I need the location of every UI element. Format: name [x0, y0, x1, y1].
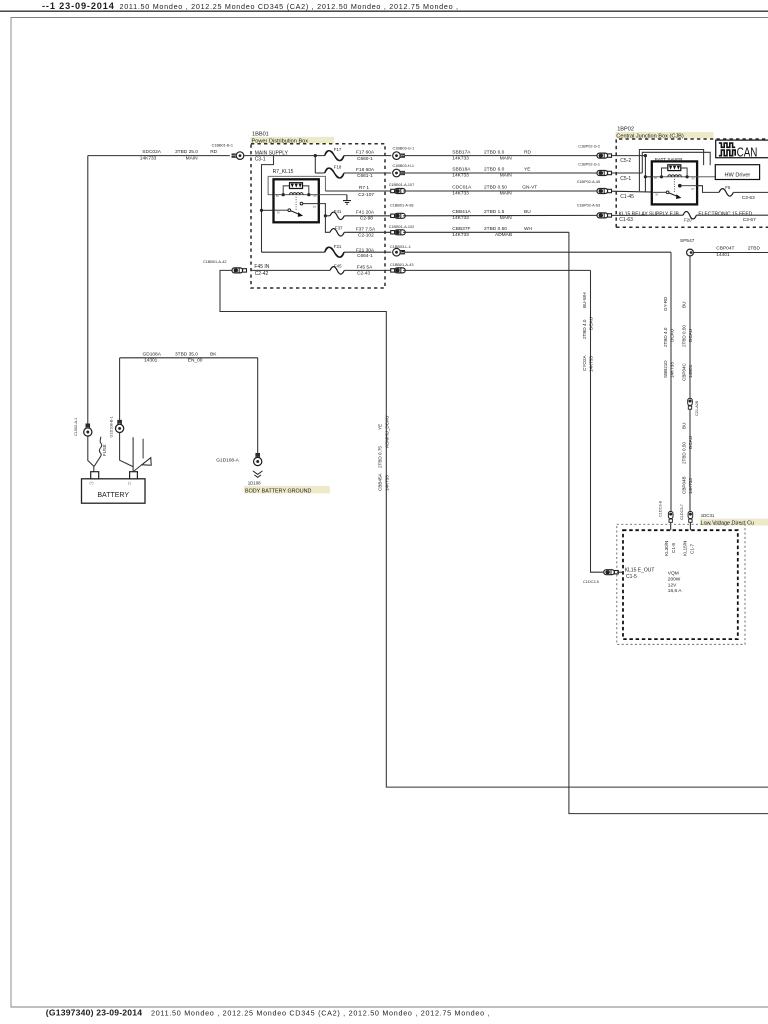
svg-text:2TBD 0.50: 2TBD 0.50 — [682, 325, 687, 347]
svg-text:85: 85 — [313, 194, 317, 198]
svg-text:C1BP02-G-1: C1BP02-G-1 — [578, 162, 600, 166]
svg-text:C3-1: C3-1 — [255, 157, 266, 163]
svg-text:MAIN: MAIN — [500, 215, 513, 221]
svg-text:C660-1: C660-1 — [357, 156, 373, 162]
svg-text:BU: BU — [682, 423, 687, 429]
svg-text:F41: F41 — [334, 209, 342, 214]
svg-text:HW Driver: HW Driver — [725, 173, 751, 179]
svg-text:C1BB01-B-1: C1BB01-B-1 — [212, 143, 233, 147]
svg-text:14B01: 14B01 — [688, 364, 693, 378]
svg-text:RD: RD — [210, 149, 217, 155]
svg-text:CBB37F: CBB37F — [452, 226, 470, 232]
svg-text:14K733: 14K733 — [670, 362, 675, 378]
svg-text:86: 86 — [276, 194, 280, 198]
svg-text:SDC02A: SDC02A — [142, 149, 161, 155]
svg-text:MAIN SUPPLY: MAIN SUPPLY — [255, 150, 289, 156]
svg-text:CBP04C: CBP04C — [682, 362, 687, 381]
svg-text:14K733: 14K733 — [688, 478, 693, 494]
svg-text:KL30/N: KL30/N — [664, 541, 669, 556]
svg-text:F45 5A: F45 5A — [357, 264, 373, 270]
svg-text:14K733: 14K733 — [452, 173, 469, 179]
svg-text:F18: F18 — [334, 165, 342, 170]
svg-text:C1DC3-8: C1DC3-8 — [659, 501, 663, 517]
svg-text:C3-67: C3-67 — [743, 217, 756, 223]
svg-text:87: 87 — [691, 187, 695, 191]
svg-text:2TBD 6.0: 2TBD 6.0 — [484, 149, 505, 155]
svg-text:C664-1: C664-1 — [357, 253, 373, 259]
svg-text:MAIN: MAIN — [500, 173, 513, 179]
svg-text:F37 7.5A: F37 7.5A — [356, 227, 376, 233]
svg-text:CYO2A: CYO2A — [582, 354, 587, 371]
svg-text:30: 30 — [277, 211, 281, 215]
svg-text:14301: 14301 — [144, 357, 158, 363]
svg-text:MAIN: MAIN — [500, 155, 513, 161]
svg-text:1BB01: 1BB01 — [252, 132, 269, 138]
svg-text:GD108A: GD108A — [143, 351, 162, 357]
svg-text:C661-1: C661-1 — [357, 173, 373, 179]
svg-text:C1BB03-L-1: C1BB03-L-1 — [390, 245, 411, 249]
svg-text:C2-42: C2-42 — [255, 271, 269, 277]
svg-text:(+): (+) — [90, 481, 94, 485]
svg-text:C1-63: C1-63 — [619, 217, 633, 223]
svg-text:87: 87 — [313, 205, 317, 209]
svg-text:1BP02: 1BP02 — [617, 127, 634, 133]
svg-text:EN_00: EN_00 — [188, 357, 203, 363]
svg-text:CBB41A: CBB41A — [452, 209, 471, 215]
svg-text:C1BB01-A-107: C1BB01-A-107 — [389, 183, 415, 187]
svg-text:BK: BK — [210, 351, 217, 357]
svg-text:ADMAB: ADMAB — [495, 232, 512, 238]
svg-text:F17: F17 — [334, 147, 342, 152]
svg-text:F21: F21 — [334, 244, 342, 249]
svg-text:BU-WH: BU-WH — [582, 292, 587, 308]
svg-text:C1BB01-A-98: C1BB01-A-98 — [390, 204, 413, 208]
svg-text:C1BB03-H-1: C1BB03-H-1 — [393, 164, 415, 168]
svg-text:14K733: 14K733 — [452, 232, 469, 238]
svg-text:C1BP02-A-45: C1BP02-A-45 — [577, 180, 600, 184]
svg-text:2TBD 0.50: 2TBD 0.50 — [484, 226, 507, 232]
svg-text:BU: BU — [524, 209, 531, 215]
svg-text:14401: 14401 — [716, 252, 730, 258]
svg-text:F37: F37 — [335, 225, 343, 230]
svg-text:C21-A28: C21-A28 — [695, 401, 699, 416]
svg-text:C3-63: C3-63 — [742, 195, 755, 201]
svg-text:86: 86 — [654, 176, 658, 180]
svg-text:C1-8: C1-8 — [671, 543, 676, 553]
svg-text:RD: RD — [524, 149, 531, 155]
svg-text:BODY BATTERY GROUND: BODY BATTERY GROUND — [245, 488, 312, 494]
svg-text:C1DC3-5: C1DC3-5 — [583, 580, 599, 584]
svg-text:C1DC3-7: C1DC3-7 — [680, 504, 684, 520]
svg-text:2011.50 Mondeo , 2012.25 Monde: 2011.50 Mondeo , 2012.25 Mondeo CD345 (C… — [151, 1009, 490, 1018]
svg-text:KL15 E_OUT: KL15 E_OUT — [625, 568, 655, 574]
svg-text:F18 60A: F18 60A — [356, 167, 375, 173]
svg-text:GY-RD: GY-RD — [663, 296, 668, 311]
svg-text:DCAU: DCAU — [670, 329, 675, 342]
svg-text:F41 20A: F41 20A — [356, 210, 375, 216]
svg-text:F5: F5 — [725, 185, 731, 190]
svg-text:85: 85 — [692, 176, 696, 180]
svg-text:C1BB03-G-1: C1BB03-G-1 — [393, 147, 415, 151]
svg-text:SBB17A: SBB17A — [452, 149, 471, 155]
svg-text:14K733: 14K733 — [384, 475, 389, 491]
svg-text:30: 30 — [655, 193, 659, 197]
svg-text:WH: WH — [524, 226, 533, 232]
svg-text:2TBD 0.75: 2TBD 0.75 — [378, 446, 383, 468]
svg-text:F45: F45 — [334, 263, 342, 268]
svg-text:C1-5: C1-5 — [626, 574, 637, 580]
svg-text:R7_KL15: R7_KL15 — [273, 169, 294, 175]
svg-text:C1002-A-1: C1002-A-1 — [74, 418, 78, 436]
svg-text:BATTERY: BATTERY — [97, 492, 129, 499]
svg-text:C5-1: C5-1 — [620, 176, 631, 182]
svg-text:FUSE: FUSE — [102, 444, 107, 456]
svg-text:C1BP02-A-63: C1BP02-A-63 — [577, 204, 600, 208]
svg-text:MAIN: MAIN — [186, 155, 199, 161]
svg-text:2011.50 Mondeo , 2012.25 Monde: 2011.50 Mondeo , 2012.25 Mondeo CD345 (C… — [120, 2, 459, 11]
svg-text:CDC01A: CDC01A — [452, 185, 472, 191]
svg-text:YE: YE — [524, 167, 530, 173]
svg-text:14K733: 14K733 — [452, 215, 469, 221]
svg-text:(G1397340) 23-09-2014: (G1397340) 23-09-2014 — [46, 1008, 142, 1018]
svg-text:GN-VT: GN-VT — [522, 185, 537, 191]
svg-text:Low Voltage Direct Cu: Low Voltage Direct Cu — [701, 520, 754, 526]
svg-text:C5-2: C5-2 — [620, 158, 631, 164]
svg-text:(-): (-) — [128, 481, 131, 485]
svg-text:14K733: 14K733 — [452, 155, 469, 161]
svg-text:1D108: 1D108 — [248, 481, 261, 486]
svg-text:C2-102: C2-102 — [358, 233, 374, 239]
svg-text:CBB45A: CBB45A — [378, 472, 383, 491]
svg-text:SBB18A: SBB18A — [452, 167, 471, 173]
svg-text:3TBD 35.0: 3TBD 35.0 — [175, 351, 198, 357]
svg-text:16,6 A: 16,6 A — [668, 588, 682, 594]
svg-text:C1-45: C1-45 — [620, 194, 634, 200]
svg-text:12V: 12V — [668, 582, 677, 588]
svg-text:BU: BU — [682, 302, 687, 308]
svg-text:CBP04T: CBP04T — [716, 246, 734, 252]
svg-text:C2-43: C2-43 — [357, 271, 370, 277]
svg-text:SP547: SP547 — [680, 238, 695, 244]
svg-text:CAN: CAN — [737, 145, 758, 159]
svg-text:2TBD 0.50: 2TBD 0.50 — [484, 185, 507, 191]
svg-text:C2-107: C2-107 — [358, 192, 374, 198]
svg-text:DCAU: DCAU — [688, 436, 693, 449]
svg-text:C2-98: C2-98 — [360, 216, 373, 222]
svg-text:G1D108-B-1: G1D108-B-1 — [110, 416, 114, 437]
svg-text:2TBD 0.50: 2TBD 0.50 — [682, 442, 687, 464]
svg-text:200W: 200W — [668, 576, 681, 582]
svg-text:F21 30A: F21 30A — [356, 247, 375, 253]
svg-text:2TBD 4.0: 2TBD 4.0 — [582, 319, 587, 339]
svg-text:C1-7: C1-7 — [690, 544, 695, 554]
svg-text:C1BP02-G-2: C1BP02-G-2 — [578, 145, 600, 149]
svg-text:3TBD 25.0: 3TBD 25.0 — [175, 149, 198, 155]
svg-text:VQM: VQM — [668, 571, 679, 577]
svg-text:C1BB01-A-102: C1BB01-A-102 — [389, 225, 415, 229]
svg-text:C1BB01-A-42: C1BB01-A-42 — [203, 260, 226, 264]
svg-text:2TBD: 2TBD — [748, 246, 761, 252]
svg-text:14K733: 14K733 — [452, 191, 469, 197]
svg-text:DCAU: DCAU — [688, 329, 693, 342]
svg-text:2TBD 6.0: 2TBD 6.0 — [484, 167, 505, 173]
svg-text:ELECTRONIC 15 FEED: ELECTRONIC 15 FEED — [698, 211, 752, 217]
svg-text:G1D108-A: G1D108-A — [216, 458, 239, 464]
svg-text:2TBD 1.5: 2TBD 1.5 — [484, 209, 505, 215]
svg-text:14K733: 14K733 — [589, 356, 594, 372]
svg-text:F45 IN: F45 IN — [254, 264, 269, 270]
svg-text:14K733: 14K733 — [140, 155, 157, 161]
svg-text:YE: YE — [378, 424, 383, 430]
svg-text:C1BB01-A-43: C1BB01-A-43 — [390, 263, 413, 267]
svg-text:F17 60A: F17 60A — [356, 150, 375, 156]
svg-text:CBP04B: CBP04B — [682, 476, 687, 494]
svg-text:F20: F20 — [684, 217, 692, 222]
svg-text:2TBD 4.0: 2TBD 4.0 — [663, 327, 668, 347]
svg-text:DCAU: DCAU — [589, 317, 594, 330]
svg-text:1DC31: 1DC31 — [701, 513, 715, 518]
svg-text:R7 1: R7 1 — [359, 185, 369, 191]
svg-text:--1 23-09-2014: --1 23-09-2014 — [42, 1, 115, 11]
svg-text:ADMHU_DCAU: ADMHU_DCAU — [384, 416, 389, 448]
svg-text:SBB21D: SBB21D — [663, 360, 668, 378]
svg-text:KL15/N: KL15/N — [683, 541, 688, 556]
svg-text:MAIN: MAIN — [500, 191, 513, 197]
